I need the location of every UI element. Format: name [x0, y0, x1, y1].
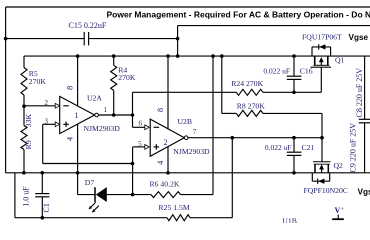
- svg-text:C21: C21: [302, 143, 315, 152]
- svg-text:U2A: U2A: [87, 94, 102, 103]
- svg-text:R9: R9: [24, 140, 33, 149]
- svg-text:U2B: U2B: [178, 117, 193, 126]
- svg-text:R25 1.5M: R25 1.5M: [159, 203, 190, 212]
- svg-text:C16: C16: [300, 67, 313, 76]
- svg-text:C8 220 uF 25V: C8 220 uF 25V: [355, 68, 364, 118]
- svg-text:C9 220 uF 25V: C9 220 uF 25V: [349, 123, 358, 173]
- svg-text:Q1: Q1: [335, 56, 345, 65]
- svg-text:0.022 uF: 0.022 uF: [265, 143, 292, 152]
- svg-text:Q2: Q2: [334, 161, 344, 170]
- svg-text:D7: D7: [85, 178, 95, 187]
- svg-text:U1B: U1B: [282, 217, 297, 223]
- svg-text:FQPF10N20C: FQPF10N20C: [304, 186, 348, 195]
- svg-text:270K: 270K: [118, 73, 136, 82]
- svg-text:FQU17P06T: FQU17P06T: [302, 33, 342, 42]
- svg-text:1.0 uF: 1.0 uF: [21, 186, 30, 207]
- svg-text:2: 2: [45, 99, 49, 107]
- svg-text:1: 1: [104, 106, 108, 114]
- svg-text:270K: 270K: [29, 77, 47, 86]
- svg-text:C1: C1: [42, 203, 51, 212]
- svg-text:C15 0.22uF: C15 0.22uF: [69, 21, 107, 30]
- svg-text:Vgse: Vgse: [349, 33, 369, 42]
- svg-text:R6 40.2K: R6 40.2K: [150, 180, 180, 189]
- svg-text:6: 6: [138, 120, 142, 128]
- svg-text:R24 270K: R24 270K: [231, 79, 263, 88]
- svg-text:2: 2: [164, 138, 168, 147]
- svg-text:33K: 33K: [24, 114, 33, 128]
- svg-text:4: 4: [66, 137, 75, 141]
- svg-text:8: 8: [156, 108, 165, 112]
- svg-text:Vgs: Vgs: [358, 187, 370, 196]
- svg-text:3: 3: [45, 118, 49, 126]
- svg-text:NJM2903D: NJM2903D: [84, 124, 121, 133]
- svg-text:1: 1: [75, 111, 79, 120]
- svg-text:R8 270K: R8 270K: [237, 102, 265, 111]
- svg-text:Power Management - Required Fo: Power Management - Required For AC & Bat…: [107, 10, 370, 20]
- svg-text:5: 5: [138, 140, 142, 148]
- svg-text:7: 7: [193, 128, 197, 136]
- svg-text:8: 8: [66, 86, 75, 90]
- svg-text:4: 4: [156, 161, 165, 165]
- svg-text:0.022 uF: 0.022 uF: [263, 67, 290, 76]
- svg-text:NJM2903D: NJM2903D: [173, 147, 210, 156]
